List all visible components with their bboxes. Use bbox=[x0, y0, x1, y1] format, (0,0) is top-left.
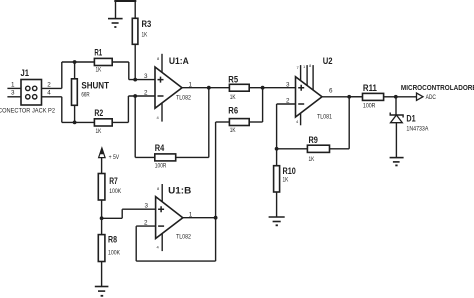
node R11 right bbox=[394, 95, 398, 99]
node U1:A output bbox=[207, 86, 211, 90]
node shunt bottom bbox=[73, 121, 77, 125]
svg-text:MICROCONTROLADORES: MICROCONTROLADORES bbox=[401, 83, 474, 92]
resistor R5 bbox=[229, 84, 262, 91]
resistor R10 bbox=[274, 149, 280, 217]
svg-text:R2: R2 bbox=[94, 108, 103, 119]
wire bottom rail bbox=[62, 121, 95, 123]
node pin3 bbox=[133, 78, 137, 82]
svg-text:R10: R10 bbox=[283, 166, 296, 177]
ground D1 bbox=[390, 158, 404, 166]
svg-text:1K: 1K bbox=[96, 66, 102, 73]
resistor R1 bbox=[94, 58, 128, 65]
ground R10 bbox=[269, 217, 285, 225]
svg-text:J1: J1 bbox=[21, 68, 30, 79]
svg-text:2: 2 bbox=[47, 81, 51, 88]
svg-text:8: 8 bbox=[309, 63, 312, 68]
svg-text:1K: 1K bbox=[230, 127, 236, 134]
resistor R2 bbox=[94, 119, 128, 126]
resistor R6 bbox=[216, 119, 263, 126]
svg-text:1K: 1K bbox=[309, 156, 315, 163]
svg-text:CONECTOR JACK P2: CONECTOR JACK P2 bbox=[0, 108, 55, 115]
svg-text:8: 8 bbox=[157, 56, 160, 61]
wire node to U1:B pin3 bbox=[102, 209, 156, 218]
svg-text:2: 2 bbox=[144, 90, 148, 97]
svg-text:1K: 1K bbox=[230, 94, 236, 101]
svg-text:R3: R3 bbox=[142, 19, 152, 30]
op-amp U2 bbox=[296, 65, 323, 125]
svg-text:100K: 100K bbox=[109, 188, 122, 195]
svg-text:100K: 100K bbox=[108, 249, 121, 256]
wire top rail bbox=[62, 61, 95, 63]
svg-text:1K: 1K bbox=[283, 176, 289, 183]
svg-text:TL081: TL081 bbox=[317, 113, 332, 120]
svg-text:R4: R4 bbox=[155, 143, 165, 154]
svg-text:R9: R9 bbox=[309, 135, 318, 146]
connector J1 bbox=[7, 80, 61, 106]
svg-text:100R: 100R bbox=[155, 162, 167, 169]
wire output to R4 bbox=[208, 88, 210, 158]
wire J1 pin4 riser bbox=[61, 97, 63, 123]
svg-text:4: 4 bbox=[47, 90, 51, 97]
svg-text:4: 4 bbox=[157, 245, 160, 250]
node shunt top bbox=[73, 60, 77, 64]
node U2 output bbox=[347, 95, 351, 99]
svg-text:R6: R6 bbox=[228, 106, 238, 117]
svg-text:1K: 1K bbox=[96, 128, 102, 135]
svg-text:R8: R8 bbox=[108, 234, 117, 245]
op-amp U1:B bbox=[156, 184, 183, 251]
svg-text:66R: 66R bbox=[81, 92, 90, 99]
ADC arrow bbox=[417, 93, 424, 100]
wire pin2 to R4 bbox=[134, 96, 136, 157]
svg-text:TL082: TL082 bbox=[176, 233, 191, 240]
node R7-R8 bbox=[100, 216, 104, 220]
svg-text:R1: R1 bbox=[94, 47, 102, 58]
wire R5 node to U2 pin3 bbox=[263, 87, 296, 89]
resistor R3 bbox=[132, 1, 138, 80]
svg-text:1: 1 bbox=[11, 81, 15, 88]
wire R2 to pin2 bbox=[128, 96, 155, 122]
svg-text:R11: R11 bbox=[363, 83, 378, 94]
svg-text:8: 8 bbox=[157, 186, 160, 191]
wire output to R9 bbox=[348, 97, 350, 149]
svg-text:1: 1 bbox=[303, 64, 306, 69]
svg-text:4: 4 bbox=[157, 115, 160, 120]
wire U1:B pin2 feedback bbox=[136, 226, 215, 261]
svg-text:ADC: ADC bbox=[426, 94, 437, 101]
diode D1 zener bbox=[390, 97, 403, 158]
svg-text:U2: U2 bbox=[323, 56, 333, 67]
svg-text:3: 3 bbox=[145, 203, 149, 210]
wire U2 pin2 bbox=[277, 104, 296, 149]
svg-text:3: 3 bbox=[11, 90, 15, 97]
wire R1 to pin3 bbox=[129, 62, 155, 80]
ground R8 bbox=[95, 287, 109, 296]
wire U1:A output bbox=[182, 87, 229, 89]
svg-text:3: 3 bbox=[144, 73, 148, 80]
svg-text:+ 5V: + 5V bbox=[109, 154, 120, 161]
wire R5 node to R6 bbox=[262, 88, 264, 122]
op-amp U1:A bbox=[155, 54, 182, 122]
resistor R4 bbox=[135, 154, 209, 161]
svg-text:100R: 100R bbox=[363, 102, 376, 109]
svg-text:U1:A: U1:A bbox=[169, 56, 189, 67]
wire U2 output bbox=[322, 96, 363, 98]
svg-text:6: 6 bbox=[329, 88, 333, 95]
resistor R7 bbox=[98, 174, 105, 219]
node R9 left bbox=[275, 147, 279, 151]
svg-text:U1:B: U1:B bbox=[168, 185, 191, 196]
svg-text:3: 3 bbox=[286, 82, 290, 89]
svg-text:1K: 1K bbox=[142, 32, 148, 39]
svg-text:TL082: TL082 bbox=[176, 95, 191, 102]
+5V supply bbox=[99, 148, 106, 174]
svg-text:SHUNT: SHUNT bbox=[81, 81, 109, 92]
resistor R11 bbox=[349, 93, 396, 100]
svg-text:4: 4 bbox=[296, 119, 299, 124]
svg-text:D1: D1 bbox=[406, 114, 416, 125]
node pin2 bbox=[133, 94, 137, 98]
svg-text:7: 7 bbox=[297, 65, 300, 70]
wire U1:B output bbox=[183, 217, 216, 219]
resistor SHUNT bbox=[72, 62, 78, 122]
svg-text:1N4733A: 1N4733A bbox=[406, 125, 429, 132]
wire J1 pin2 riser bbox=[61, 62, 63, 88]
node R5 right bbox=[261, 86, 265, 90]
node U1:B output bbox=[214, 216, 218, 220]
resistor R8 bbox=[98, 218, 105, 286]
resistor R9 bbox=[277, 145, 350, 152]
ground top-left bbox=[108, 1, 136, 27]
wire node to ADC arrow bbox=[396, 96, 417, 98]
svg-text:R5: R5 bbox=[228, 74, 238, 85]
svg-text:R7: R7 bbox=[109, 176, 118, 187]
wire R6 to U1:B output bbox=[215, 122, 217, 261]
